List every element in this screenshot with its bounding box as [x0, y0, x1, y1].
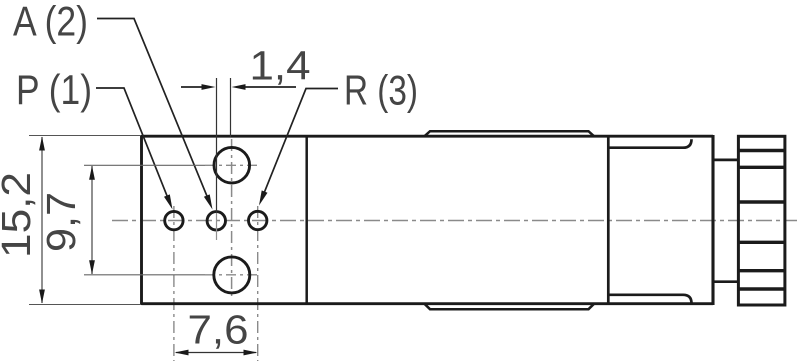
extension line big circle axis — [230, 78, 232, 137]
centerline horizontal axis — [112, 220, 797, 222]
centerline vertical big circles — [231, 139, 233, 297]
dim line 15,2 — [41, 137, 43, 303]
dimension 15,2 — [0, 172, 39, 258]
knob groove 4 — [737, 241, 786, 244]
extension line bottom — [29, 304, 141, 306]
extension line 9,7 top — [84, 164, 205, 166]
svg-text:7,6: 7,6 — [188, 307, 249, 353]
centerline horizontal circle bottom — [205, 274, 258, 276]
svg-text:1,4: 1,4 — [250, 43, 311, 89]
dimension 9,7 — [38, 192, 84, 252]
svg-text:9,7: 9,7 — [38, 192, 84, 252]
neck top — [715, 159, 739, 162]
port A top circle — [214, 147, 250, 183]
tube inner contour top — [610, 139, 692, 148]
port bottom circle — [214, 257, 250, 293]
dim line 1,4 left arrow — [181, 86, 204, 88]
solenoid tube right edge — [711, 135, 714, 305]
centerline vertical port R right — [257, 206, 259, 361]
svg-text:15,2: 15,2 — [0, 172, 39, 258]
body section divider — [305, 136, 308, 304]
knob groove 3 — [737, 200, 786, 203]
leader R3 — [263, 89, 338, 195]
leader P1 — [96, 88, 168, 199]
port R small circle — [249, 211, 267, 229]
centerline vertical port P left — [173, 206, 175, 361]
leader A2 — [97, 19, 208, 200]
dim line 1,4 right tail — [243, 86, 296, 88]
knob groove 5 — [737, 269, 786, 272]
svg-text:R (3): R (3) — [344, 67, 418, 114]
valve body outline — [142, 135, 714, 305]
port P small circle — [165, 211, 183, 229]
body right section edge — [607, 135, 610, 305]
svg-text:A (2): A (2) — [13, 0, 88, 45]
top mounting lip — [425, 131, 595, 136]
extension line 9,7 bottom — [84, 274, 205, 276]
port A small circle — [207, 212, 225, 230]
extension line top — [29, 135, 141, 137]
knob groove 6 — [737, 287, 786, 290]
svg-text:P (1): P (1) — [16, 66, 92, 113]
knurled knob outline — [738, 136, 785, 305]
neck bottom — [715, 280, 739, 283]
bottom mounting lip — [425, 304, 595, 309]
dim line 9,7 — [91, 166, 93, 274]
knob groove 1 — [737, 149, 786, 152]
dim line 7,6 — [176, 352, 256, 354]
tube inner contour bottom — [610, 295, 692, 304]
centerline horizontal circle A top — [205, 164, 258, 166]
extension line A small — [216, 78, 218, 213]
knob groove 2 — [737, 166, 786, 169]
